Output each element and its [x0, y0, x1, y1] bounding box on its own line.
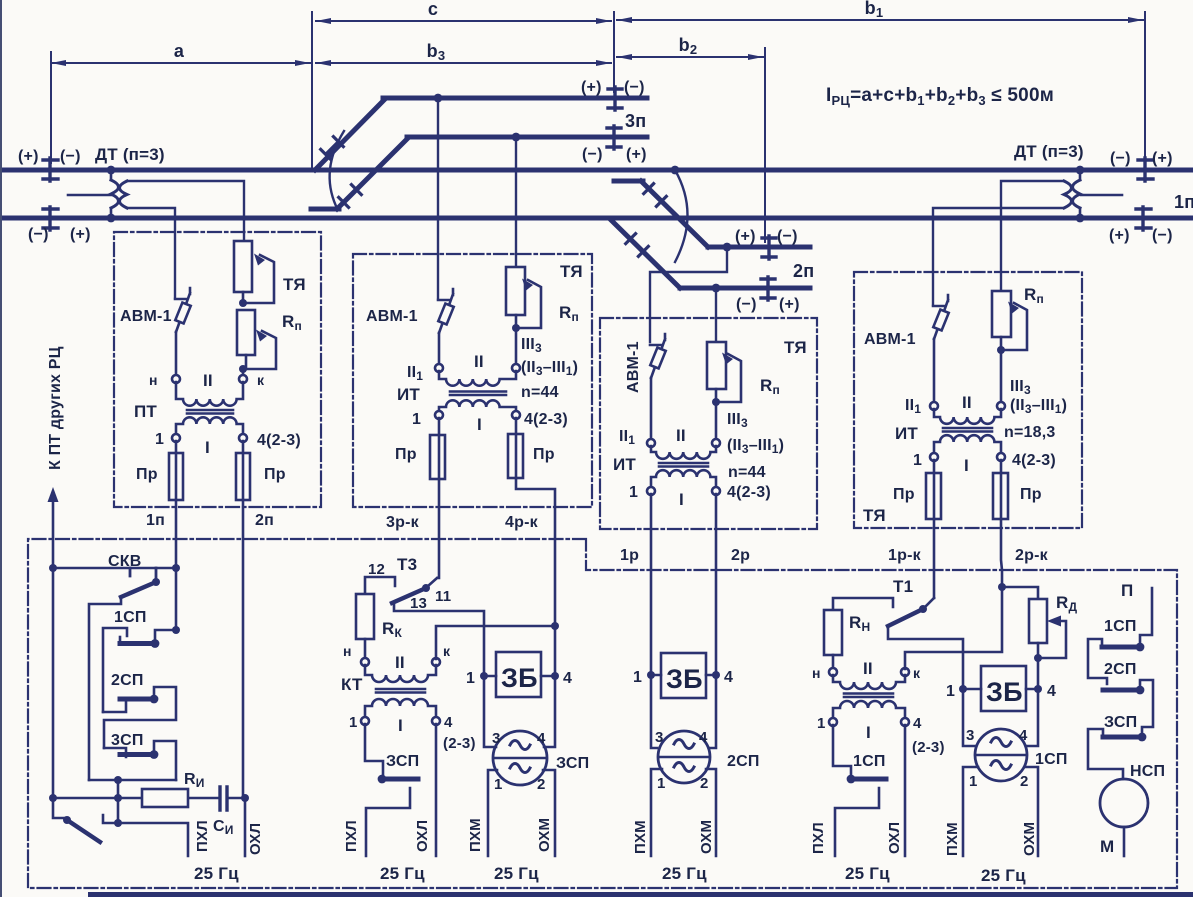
svg-text:ЗСП: ЗСП [386, 753, 419, 770]
Rd wiper arrow [1038, 621, 1066, 689]
wire breaker to terminal n [175, 332, 178, 375]
svg-text:(−): (−) [582, 146, 603, 163]
svg-text:Пр: Пр [395, 446, 417, 463]
svg-text:2: 2 [1020, 773, 1029, 790]
svg-text:ПХМ: ПХМ [467, 818, 484, 852]
terminal k KT [432, 658, 440, 666]
svg-text:II: II [474, 352, 484, 371]
terminal 4(2-3) box4 [997, 453, 1005, 461]
terminal 4 KT [432, 717, 440, 725]
wire 2r to ZB [709, 675, 716, 748]
svg-text:(+): (+) [779, 296, 800, 313]
svg-text:СИ: СИ [213, 818, 234, 837]
TYa wiper arrow [243, 255, 274, 303]
svg-text:3: 3 [966, 727, 975, 744]
svg-text:II: II [863, 659, 873, 678]
svg-text:4(2-3): 4(2-3) [257, 432, 301, 449]
svg-text:RД: RД [1056, 593, 1077, 614]
svg-text:ЗБ: ЗБ [986, 677, 1023, 707]
svg-text:3: 3 [492, 730, 501, 747]
wire 1r-k down [933, 519, 936, 598]
svg-text:n=44: n=44 [728, 464, 766, 481]
svg-text:2СП: 2СП [111, 672, 144, 689]
wire k to 2r-k junction [905, 587, 1002, 669]
dimension line b1 [617, 19, 1143, 21]
svg-text:(+): (+) [626, 146, 647, 163]
terminal k T1 [901, 668, 909, 676]
svg-text:b1: b1 [865, 0, 884, 20]
wire 4r-k junction down to ZB4 [554, 626, 557, 676]
svg-text:25 Гц: 25 Гц [981, 866, 1026, 885]
wire Rk to n [364, 639, 367, 658]
svg-text:(−): (−) [1110, 150, 1131, 167]
svg-text:1: 1 [412, 411, 421, 428]
node on rail 1p top at arc [671, 166, 680, 175]
svg-text:1: 1 [494, 776, 503, 793]
Rp wiper arrow box4 [1001, 303, 1027, 350]
bottom collector wire [89, 779, 176, 782]
contact 2SP [120, 697, 154, 702]
contact 1SP [155, 630, 176, 640]
contact 1SP T1 [833, 725, 851, 776]
IT core box2 [450, 392, 506, 396]
svg-text:II1: II1 [905, 397, 921, 416]
breaker AVM-1 box1 [175, 288, 190, 332]
box IT-1r dash-dot frame [600, 318, 817, 529]
terminal 1 [172, 434, 180, 442]
resistor Ri [142, 789, 188, 807]
contact 3SP T3 [365, 724, 383, 776]
svg-text:IРЦ=a+c+b1+b2+b3 ≤ 500м: IРЦ=a+c+b1+b2+b3 ≤ 500м [826, 85, 1054, 108]
svg-text:II: II [962, 393, 972, 412]
svg-text:(−): (−) [624, 79, 645, 96]
wire 1r down [650, 494, 653, 675]
dimension line b3 [316, 62, 611, 64]
svg-text:ОХМ: ОХМ [1021, 822, 1038, 856]
wire 2r-k down [1001, 519, 1002, 587]
svg-text:Rп: Rп [559, 303, 579, 324]
TYa wiper arrow box2 [516, 280, 541, 328]
turnout diagonal 3p upper [315, 100, 384, 170]
svg-text:АВМ-1: АВМ-1 [120, 308, 172, 325]
terminal n T1 [829, 668, 837, 676]
turnout stub 3p lower [311, 207, 339, 212]
turnout arc left [330, 131, 344, 206]
node Rp/k [239, 365, 247, 373]
svg-text:Rп: Rп [282, 312, 302, 333]
svg-text:III3: III3 [727, 411, 748, 430]
link to 2SP [103, 702, 126, 712]
breaker AVM-1 box3 [650, 334, 665, 378]
svg-text:1: 1 [349, 714, 358, 731]
fixed contact 13 wire to ZB [394, 605, 484, 673]
breaker AVM-1 box4 [933, 295, 948, 339]
svg-text:Т3: Т3 [397, 555, 417, 574]
rail 2p top [708, 245, 810, 250]
svg-text:М: М [1100, 837, 1114, 856]
insulated joint 2p top rail [762, 236, 776, 259]
wire below motor [1123, 827, 1126, 856]
rail 3p top [383, 96, 647, 101]
insulated joint 1p right top [1138, 158, 1153, 181]
svg-text:Rп: Rп [760, 376, 780, 397]
svg-text:12: 12 [368, 561, 385, 578]
svg-text:2: 2 [537, 776, 546, 793]
svg-text:(−): (−) [1152, 227, 1173, 244]
svg-text:НСП: НСП [1130, 763, 1165, 780]
svg-text:к: к [443, 643, 451, 659]
fuse Pr left box1 [175, 441, 178, 500]
terminal III3 box4 [997, 402, 1005, 410]
blade wire to ZB [888, 626, 963, 686]
converter 3SP circle [493, 731, 547, 785]
terminal II1 [435, 364, 443, 372]
contact 3SP [120, 752, 154, 757]
polarity labels left joints [18, 148, 91, 243]
terminal 1 box4 [930, 453, 938, 461]
svg-text:a: a [174, 41, 185, 61]
svg-text:н: н [343, 643, 352, 659]
svg-text:(+): (+) [1109, 227, 1130, 244]
svg-text:RИ: RИ [184, 771, 205, 790]
contact T1 common [925, 598, 934, 607]
KT core [376, 689, 425, 693]
svg-text:11: 11 [435, 588, 451, 605]
svg-text:(2-3): (2-3) [443, 735, 476, 752]
resistor Rp box1 [237, 310, 255, 355]
svg-text:ТЯ: ТЯ [283, 275, 306, 294]
contact I row [53, 798, 64, 818]
box IT-3r dash-dot frame [353, 254, 592, 507]
svg-text:1п: 1п [1174, 192, 1193, 212]
svg-text:ДТ (п=3): ДТ (п=3) [95, 145, 165, 164]
svg-text:ЗБ: ЗБ [666, 664, 703, 694]
svg-text:3п: 3п [625, 111, 646, 131]
svg-text:ПХМ: ПХМ [944, 822, 961, 856]
terminal 4(2-3) box2 [512, 411, 520, 419]
terminal 4(2-3) box3 [712, 487, 720, 495]
node below TYa box2 [512, 324, 520, 332]
wire 1r to ZB [651, 675, 657, 748]
fixed contact 12 loop to Rk [365, 577, 395, 594]
svg-text:(II3–III1): (II3–III1) [1010, 397, 1067, 416]
contact T3 common [428, 578, 437, 586]
terminal 1 KT [361, 717, 369, 725]
choke transformer DT right [1064, 166, 1122, 223]
dimension extension line b1 end [1144, 12, 1146, 160]
svg-text:13: 13 [410, 595, 427, 612]
svg-text:b2: b2 [679, 35, 698, 57]
svg-text:3: 3 [655, 729, 664, 746]
breaker AVM-1 box2 [438, 289, 453, 333]
svg-text:4: 4 [1019, 727, 1028, 744]
svg-text:3СП: 3СП [111, 732, 144, 749]
svg-text:25 Гц: 25 Гц [380, 864, 425, 883]
svg-text:4(2-3): 4(2-3) [524, 411, 568, 428]
svg-text:25 Гц: 25 Гц [845, 864, 890, 883]
dimension line c [316, 20, 611, 22]
resistor TYa box3 [707, 342, 726, 389]
wire breaker to II1 box4 [933, 339, 936, 402]
link to 3SP [104, 748, 126, 757]
svg-text:2СП: 2СП [1104, 661, 1137, 678]
svg-text:(+): (+) [735, 228, 756, 245]
svg-text:1: 1 [969, 773, 978, 790]
terminal 1 box2 [435, 411, 443, 419]
wire 2p top rail to box3 [650, 247, 727, 342]
svg-text:П: П [1121, 581, 1133, 600]
node below TYa box3 [712, 398, 720, 406]
left feed bus [52, 568, 55, 798]
insulated joint on 2p upper diagonal [644, 184, 667, 207]
svg-text:(−): (−) [28, 226, 49, 243]
rail 1p bottom [0, 216, 1193, 221]
svg-text:ЗБ: ЗБ [501, 663, 538, 693]
dimension extension line left (a start) [50, 52, 52, 163]
svg-text:4(2-3): 4(2-3) [1012, 452, 1056, 469]
svg-text:1: 1 [946, 683, 955, 700]
svg-text:RК: RК [382, 619, 402, 640]
insulated joint 3p bottom rail [607, 126, 621, 149]
IT core box3 [659, 463, 708, 467]
svg-text:4: 4 [699, 729, 708, 746]
IT core box4 [943, 428, 992, 432]
wire 3p top rail to box2 switch [437, 98, 439, 298]
svg-text:n=18,3: n=18,3 [1004, 424, 1055, 441]
svg-text:2СП: 2СП [727, 753, 760, 770]
converter 2SP circle [658, 731, 710, 783]
bus OHL wire [244, 798, 247, 856]
svg-text:ПХЛ: ПХЛ [343, 820, 360, 852]
fuse Pr left box4 [933, 460, 936, 519]
contact SKV [121, 568, 156, 597]
turnout diagonal 2p upper [641, 181, 708, 247]
insulated joint on 3p lower diagonal [339, 185, 362, 208]
svg-text:(−): (−) [736, 296, 757, 313]
PT core [187, 410, 233, 414]
terminal III3 [512, 364, 520, 372]
fixed wire PHL row [103, 815, 188, 856]
wire collector to Ri row [117, 780, 120, 823]
wire 2p bottom rail to box3 [715, 288, 717, 342]
svg-text:Rп: Rп [1024, 285, 1044, 306]
insulated joint on 3p upper diagonal [321, 137, 344, 160]
svg-text:4: 4 [913, 715, 922, 732]
svg-text:1СП: 1СП [853, 753, 886, 770]
block ZB T1 [981, 666, 1026, 711]
relay room dash-dot frame with jog [28, 539, 1177, 888]
wire 2p down [242, 500, 245, 798]
polarity labels right joints [1109, 150, 1173, 244]
svg-text:I: I [477, 415, 482, 434]
resistor Rd [1002, 587, 1038, 599]
terminal 4 T1 [901, 718, 909, 726]
terminal n KT [361, 658, 369, 666]
svg-text:ОХМ: ОХМ [536, 818, 553, 852]
svg-text:I: I [866, 723, 871, 742]
block ZB T3 [496, 652, 541, 697]
wire breaker to II1 [438, 333, 441, 364]
insulated joint 1p left top [43, 158, 58, 181]
svg-text:25 Гц: 25 Гц [662, 864, 707, 883]
KT core T1 [844, 694, 893, 698]
fuse Pr right box1 [242, 441, 245, 500]
dimension extension line b2 end [764, 48, 766, 242]
svg-text:4: 4 [1047, 683, 1056, 700]
polarity labels 2p joints [735, 228, 800, 313]
rail 2p bottom [680, 286, 810, 291]
svg-text:ИТ: ИТ [613, 455, 636, 474]
turnout arc right [675, 170, 688, 262]
svg-text:ДТ (п=3): ДТ (п=3) [1014, 142, 1084, 161]
ZB terminals T1 [963, 688, 1038, 691]
svg-text:III3: III3 [521, 336, 542, 355]
svg-text:КТ: КТ [341, 675, 363, 694]
svg-text:(+): (+) [18, 148, 39, 165]
contact T3 blade [392, 588, 426, 603]
svg-text:4р-к: 4р-к [505, 514, 539, 531]
wire DT right top to Rp [1001, 181, 1064, 291]
contact 1SP right [1136, 643, 1145, 652]
svg-text:Пр: Пр [264, 466, 286, 483]
wire P down [1140, 588, 1152, 644]
svg-text:I: I [964, 456, 969, 475]
svg-text:ИТ: ИТ [397, 385, 420, 404]
svg-text:n=44: n=44 [521, 384, 559, 401]
svg-text:1: 1 [817, 715, 826, 732]
contact SKV row wire [53, 567, 176, 570]
svg-text:Т1: Т1 [893, 577, 913, 596]
rail 3p bottom [407, 135, 647, 140]
converter terminals T1 [963, 689, 1038, 746]
resistor TYa box1 [234, 241, 252, 292]
Ri row wire [53, 797, 245, 800]
polarity labels 3p joints [581, 79, 647, 163]
turnout diagonal 3p lower [337, 138, 408, 209]
dimension line a [51, 62, 310, 64]
wire DT right bottom to AVM [933, 208, 1064, 304]
Rp wiper arrow [243, 331, 276, 369]
svg-text:ОХЛ: ОХЛ [247, 823, 264, 855]
svg-text:(+): (+) [70, 226, 91, 243]
terminal 4(2-3) [239, 434, 247, 442]
wire 4r-k jog down [516, 478, 555, 626]
box IT-1rk dash-dot frame [854, 272, 1082, 528]
svg-text:4: 4 [563, 670, 572, 687]
contact T1 blade [888, 609, 923, 626]
turnout stub 2p upper [614, 179, 643, 184]
svg-text:н: н [149, 372, 158, 388]
svg-text:I: I [398, 716, 403, 735]
svg-text:2: 2 [700, 775, 709, 792]
resistor Rn [824, 610, 842, 655]
ZB terminals T3 [484, 675, 555, 678]
svg-text:4: 4 [444, 714, 453, 731]
converter terminals T3 [484, 676, 555, 747]
2SP output link [104, 687, 176, 748]
terminal n [172, 375, 180, 383]
node TYa/Rp [239, 299, 247, 307]
svg-text:II: II [676, 426, 686, 445]
terminal II1 box3 [647, 439, 655, 447]
svg-text:ТЯ: ТЯ [863, 506, 886, 525]
node below Rp box4 [997, 346, 1005, 354]
svg-text:(+): (+) [1152, 150, 1173, 167]
svg-text:ОХЛ: ОХЛ [414, 820, 431, 852]
wire 1p common down [175, 568, 178, 630]
svg-text:25 Гц: 25 Гц [194, 864, 239, 883]
motor M circle [1100, 779, 1148, 827]
turnout stub 3p upper base [303, 168, 318, 173]
svg-text:ЗСП: ЗСП [1104, 714, 1137, 731]
svg-text:(II3–III1): (II3–III1) [727, 437, 784, 456]
svg-text:ИТ: ИТ [895, 424, 918, 443]
fuse Pr left box2 [438, 418, 441, 479]
svg-text:(−): (−) [777, 228, 798, 245]
wire breaker to II1 box3 [650, 378, 653, 439]
dimension extension line c/b1 boundary [613, 12, 615, 92]
converter bottom terminals middle [651, 769, 716, 856]
1SP fixed feed [103, 628, 127, 712]
fuse Pr right box4 [1000, 460, 1003, 519]
svg-text:ПХЛ: ПХЛ [194, 820, 211, 852]
wire 2r down [715, 494, 718, 675]
svg-text:4(2-3): 4(2-3) [727, 484, 771, 501]
bus OHL wire T1 [904, 725, 907, 856]
svg-text:ПХМ: ПХМ [632, 820, 649, 854]
svg-text:Пр: Пр [136, 466, 158, 483]
blade contact bottom left [67, 820, 100, 842]
svg-text:1: 1 [633, 669, 642, 686]
svg-text:1: 1 [913, 452, 922, 469]
svg-text:b3: b3 [427, 41, 446, 63]
arrow to other track circuits [52, 497, 55, 568]
svg-text:н: н [812, 665, 821, 681]
svg-text:ПХЛ: ПХЛ [810, 822, 827, 854]
insulated joint on 2p lower diagonal [626, 234, 649, 257]
svg-text:1СП: 1СП [1035, 751, 1068, 768]
terminal 1 T1 [829, 718, 837, 726]
svg-text:I: I [679, 490, 684, 509]
contact 2SP right [1136, 686, 1145, 695]
fixed contact loop to Rn [833, 598, 893, 610]
svg-text:1п: 1п [146, 512, 165, 529]
svg-text:25 Гц: 25 Гц [494, 864, 539, 883]
dimension line b2 [617, 56, 763, 58]
svg-text:Пр: Пр [1020, 486, 1042, 503]
svg-text:I: I [205, 438, 210, 457]
svg-text:(2-3): (2-3) [912, 739, 945, 756]
svg-text:АВМ-1: АВМ-1 [366, 308, 418, 325]
wire DT left secondary bottom to AVM [127, 208, 175, 297]
svg-text:2п: 2п [255, 512, 274, 529]
wire 3p bottom rail to box2 TYa [515, 137, 517, 267]
insulated joint 2p bottom rail [761, 277, 775, 300]
svg-text:ЗСП: ЗСП [556, 755, 589, 772]
svg-text:(+): (+) [581, 79, 602, 96]
svg-text:4: 4 [724, 669, 733, 686]
svg-text:к: к [913, 665, 921, 681]
svg-text:Пр: Пр [533, 446, 555, 463]
wire DT left secondary top to TYa [127, 181, 244, 241]
insulated joint 1p right bottom [1136, 207, 1151, 230]
contact 3SP right [1138, 733, 1147, 742]
wire Rn to n [832, 655, 835, 668]
ZB terminals middle [651, 674, 716, 677]
insulated joint 1p left bottom [43, 207, 58, 230]
svg-text:2р: 2р [731, 547, 750, 564]
svg-text:1: 1 [155, 431, 164, 448]
